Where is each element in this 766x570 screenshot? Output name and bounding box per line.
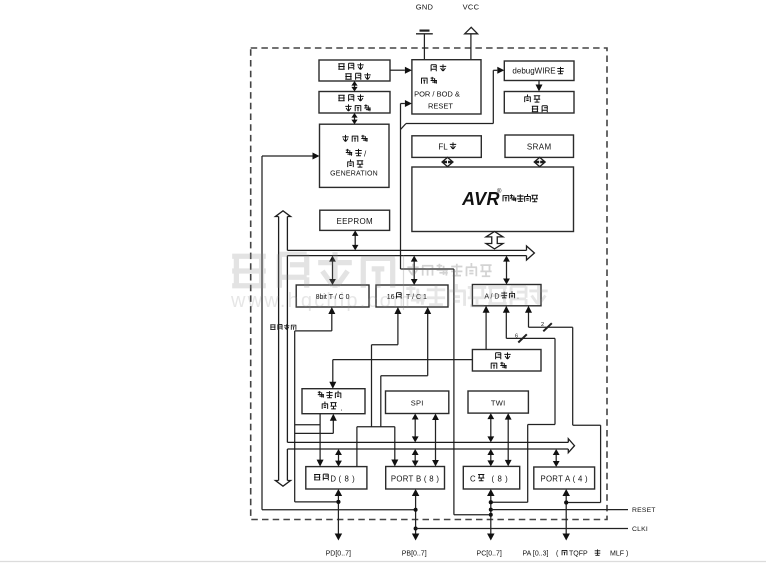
wire: bandgap to analog comparator xyxy=(333,359,473,361)
net CLKI line to label xyxy=(416,528,628,530)
block: TWI xyxy=(468,391,528,413)
block: analog comparator xyxy=(302,389,365,414)
svg-text:AVR: AVR xyxy=(461,189,500,209)
wire: debugWIRE to program logic xyxy=(538,81,540,85)
svg-text:C: C xyxy=(470,474,476,483)
wire: bandgap to A/D xyxy=(485,312,487,350)
block: PORT C (8) xyxy=(463,466,519,489)
wire: left collector to PD pin junction xyxy=(294,331,296,502)
svg-text:RESET: RESET xyxy=(428,102,453,111)
svg-text:GND: GND xyxy=(416,3,434,12)
power symbol VCC xyxy=(470,34,472,60)
svg-text:SRAM: SRAM xyxy=(527,142,552,151)
wire: comparator input xyxy=(332,420,334,433)
svg-text:TWI: TWI xyxy=(491,398,506,407)
block: AVR CPU xyxy=(412,167,574,232)
svg-text:PB[0..7]: PB[0..7] xyxy=(402,551,427,558)
block: PORT D (8) xyxy=(306,467,367,489)
svg-text:6: 6 xyxy=(515,334,518,340)
block: watchdog oscillator xyxy=(319,92,390,114)
system boundary (dashed border) xyxy=(251,48,607,520)
svg-text:MLF ): MLF ) xyxy=(610,551,628,558)
block: program logic xyxy=(504,92,574,114)
wire: watchdog timer - watchdog oscillator xyxy=(354,85,356,88)
svg-text:RESET: RESET xyxy=(632,507,656,514)
block: SPI xyxy=(386,391,449,414)
svg-text:VCC: VCC xyxy=(463,3,480,12)
block: SRAM xyxy=(505,135,574,157)
svg-text:FL: FL xyxy=(438,142,448,151)
block: internal bandgap xyxy=(472,350,541,372)
svg-text:EEPROM: EEPROM xyxy=(336,217,373,226)
wire: watchdog timer to power supervision xyxy=(390,69,405,71)
wires: SPI and TWI to bus and ports xyxy=(414,419,416,438)
data bus (upper horizontal) xyxy=(287,249,526,251)
svg-text:SPI: SPI xyxy=(411,398,424,407)
svg-text:PORT B ( 8 ): PORT B ( 8 ) xyxy=(391,474,439,483)
bus arrow: flash - CPU xyxy=(443,157,452,166)
net CLKIN: PB pin to clock generation xyxy=(261,156,263,510)
wires: T/C1 to port D / port B xyxy=(397,313,399,345)
svg-text:CLKI: CLKI xyxy=(632,526,648,533)
svg-text:D: D xyxy=(330,474,336,483)
svg-text:debugWIRE: debugWIRE xyxy=(512,67,555,76)
wires: bottom bus to ports xyxy=(338,454,340,462)
block: watchdog timer xyxy=(319,60,390,81)
port pin lines PD PB PC PA xyxy=(337,495,339,534)
block: 16bit T/C 1 xyxy=(376,285,448,307)
svg-text:PD[0..7]: PD[0..7] xyxy=(326,551,351,558)
block: EEPROM xyxy=(320,210,390,230)
svg-text:PA [0..3]: PA [0..3] xyxy=(523,551,549,558)
block: oscillator circuits / clock generation xyxy=(320,124,390,187)
svg-text:2: 2 xyxy=(541,322,544,328)
block: PORT A (4) xyxy=(534,467,595,489)
block: flash memory xyxy=(412,136,481,158)
data bus (lower horizontal) xyxy=(287,441,568,443)
wires: A/D channels to port C / port A with width slashes xyxy=(505,312,507,338)
block: power supervision POR/BOD & RESET xyxy=(412,60,481,114)
svg-text:( 8 ): ( 8 ) xyxy=(339,474,356,483)
page divider line xyxy=(0,561,766,563)
net RESET line to label xyxy=(491,509,628,511)
portc xyxy=(555,454,557,462)
svg-text:PORT A ( 4 ): PORT A ( 4 ) xyxy=(540,474,588,483)
label leader: data bus xyxy=(295,330,332,332)
svg-text:.: . xyxy=(341,404,343,413)
svg-text:GENERATION: GENERATION xyxy=(330,171,378,178)
block: 8bit T/C 0 xyxy=(296,285,369,307)
net RESET: riser to power supervision and debugWIRE xyxy=(400,104,402,270)
svg-text:www.hqchip.com: www.hqchip.com xyxy=(230,290,412,312)
svg-text:( 8 ): ( 8 ) xyxy=(492,474,509,483)
svg-text:POR / BOD &: POR / BOD & xyxy=(414,90,460,99)
ground symbol GND xyxy=(423,34,425,60)
wire: watchdog oscillator - clock generation xyxy=(354,117,356,120)
block: debugWIRE xyxy=(504,61,574,81)
wires: data bus to T/C0, T/C1, A/D xyxy=(332,261,334,280)
svg-text:®: ® xyxy=(497,188,502,195)
wire: EEPROM - data bus xyxy=(354,235,356,246)
block: A/D converter xyxy=(472,285,541,306)
block: PORT B (8) xyxy=(386,467,445,490)
bus arrow: CPU - data bus xyxy=(486,232,503,249)
wire: comparator to port D xyxy=(319,414,321,460)
bus arrow: SRAM - CPU xyxy=(535,157,544,166)
svg-text:TQFP: TQFP xyxy=(569,551,588,558)
data bus (vertical) xyxy=(278,217,280,481)
watermark xyxy=(232,252,395,288)
svg-text:PC[0..7]: PC[0..7] xyxy=(477,551,502,558)
